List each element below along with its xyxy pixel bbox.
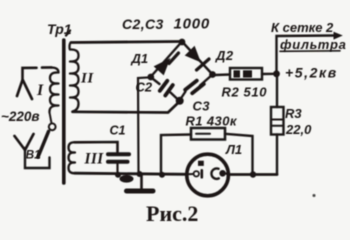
svg-text:К сетке 2: К сетке 2 bbox=[271, 20, 334, 35]
svg-text:Тр1: Тр1 bbox=[47, 21, 72, 37]
transformer core bbox=[62, 40, 66, 183]
bridge arm: right node to bottom node segments (cap C3) bbox=[200, 75, 213, 86]
ground bus wire bbox=[75, 173, 187, 174]
R1 right lead down to bus bbox=[225, 134, 253, 174]
top rail wire (winding II top to bridge top) bbox=[71, 42, 179, 43]
capacitor C2 plates bbox=[160, 81, 168, 91]
svg-text:фильтра: фильтра bbox=[280, 37, 347, 52]
bridge node dots bbox=[179, 39, 186, 46]
tube right electrode dot bbox=[219, 170, 226, 177]
tube right electrode C arc bbox=[211, 168, 218, 178]
svg-text:Л1: Л1 bbox=[225, 142, 242, 157]
resistor R1 box bbox=[191, 128, 225, 140]
wire winding II bottom to bridge bottom node bbox=[73, 102, 180, 113]
wire winding III top to C1 bbox=[75, 142, 118, 153]
winding II (secondary HV coil) bbox=[70, 43, 79, 112]
resistor R2 box bbox=[230, 68, 262, 80]
svg-text:+5,2кв: +5,2кв bbox=[285, 65, 338, 81]
C1 bottom lead bbox=[116, 164, 118, 176]
tube left electrode square bbox=[198, 161, 204, 166]
plug bottom prong fork bbox=[15, 134, 34, 150]
svg-text:1000: 1000 bbox=[174, 16, 211, 33]
svg-text:III: III bbox=[84, 151, 105, 168]
tube left contact circle bbox=[194, 171, 199, 176]
svg-text:R2 510: R2 510 bbox=[222, 85, 268, 100]
plug top prong wire bbox=[23, 67, 52, 82]
svg-text:~220в: ~220в bbox=[1, 109, 40, 124]
winding III (filament coil) bbox=[69, 142, 76, 173]
winding I (primary coil) bbox=[49, 68, 58, 113]
ground stub bbox=[140, 175, 143, 189]
diode D2 cathode bar bbox=[197, 59, 210, 70]
svg-text:В1: В1 bbox=[26, 148, 42, 162]
dust speck bbox=[313, 194, 316, 197]
svg-text:Д2: Д2 bbox=[215, 48, 234, 63]
svg-text:I: I bbox=[36, 82, 44, 99]
bridge arm: left node to bottom node segments (cap C2) bbox=[151, 77, 160, 84]
svg-text:С2,С3: С2,С3 bbox=[122, 16, 164, 32]
tube wire stub left bbox=[187, 173, 194, 175]
R1 left lead down to bus bbox=[161, 135, 191, 174]
core top tick bbox=[66, 31, 70, 36]
tube left contact bar bbox=[201, 170, 204, 177]
ink smudge blob bbox=[120, 175, 134, 183]
R2 inner marks bbox=[234, 70, 241, 77]
junction R1right-bus bbox=[250, 171, 256, 177]
resistor R3 box bbox=[271, 107, 284, 135]
wire right node to R2 bbox=[215, 73, 230, 76]
svg-text:С3: С3 bbox=[193, 99, 211, 114]
plug top prong fork bbox=[17, 80, 32, 99]
svg-text:С2: С2 bbox=[136, 80, 153, 95]
diode D1 triangle bbox=[155, 59, 170, 75]
svg-text:Д1: Д1 bbox=[131, 51, 149, 66]
ground bar bbox=[127, 189, 154, 194]
svg-text:22,0: 22,0 bbox=[285, 122, 312, 137]
diode D2 triangle bbox=[186, 47, 200, 62]
wire coil I bottom to switch bbox=[50, 113, 52, 124]
bridge arm: top node to right node (diode D2) bbox=[182, 42, 213, 75]
underline filtra bbox=[280, 50, 340, 53]
bridge arm: left node to top node (diode D1) bbox=[151, 42, 183, 78]
junction rail-bus bbox=[137, 171, 143, 177]
switch B1 lever bbox=[38, 132, 49, 158]
junction R1left-bus bbox=[159, 172, 165, 178]
svg-text:R3: R3 bbox=[285, 106, 302, 121]
R3 inner marks bbox=[272, 120, 284, 126]
wire up to output arrow bbox=[277, 36, 335, 74]
svg-text:R1 430к: R1 430к bbox=[186, 114, 238, 129]
tube wire stub right bbox=[225, 172, 228, 175]
rail from bridge left node down to bus bbox=[138, 77, 151, 173]
switch B1 contact circle bbox=[49, 123, 56, 130]
diode D1 cathode bar bbox=[169, 53, 179, 64]
svg-text:Рис.2: Рис.2 bbox=[146, 201, 198, 226]
R1 inner mark bbox=[196, 133, 210, 135]
plug bottom prong stem wire bbox=[25, 148, 50, 168]
output arrowhead bbox=[334, 33, 342, 39]
capacitor C1 plates bbox=[108, 152, 129, 156]
svg-text:С1: С1 bbox=[110, 124, 126, 138]
bus wire right of tube bbox=[229, 173, 277, 176]
svg-text:II: II bbox=[80, 71, 94, 87]
junction C1-bus bbox=[115, 172, 121, 178]
wire junction down to R3 bbox=[276, 74, 278, 107]
wire R3 bottom to bus bbox=[276, 135, 278, 175]
junction +5.2kv node bbox=[273, 70, 280, 77]
wire R2 to junction bbox=[262, 73, 277, 76]
capacitor C3 plates bbox=[185, 81, 197, 90]
tube L1 envelope circle bbox=[187, 154, 229, 196]
